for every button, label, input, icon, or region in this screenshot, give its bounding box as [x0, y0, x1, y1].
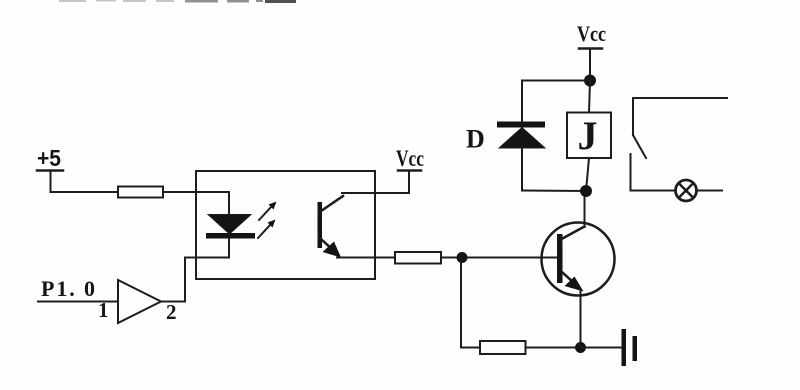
wire diode anode down: [521, 148, 523, 191]
svg-text:2: 2: [166, 300, 177, 324]
junction node emitter: [575, 342, 586, 353]
phototransistor collector lead: [321, 196, 343, 211]
relay coil J box: [567, 113, 611, 159]
svg-text:Vcc: Vcc: [396, 146, 424, 171]
svg-text:+5: +5: [37, 145, 61, 171]
wire P1.0 input: [38, 301, 118, 303]
buffer gate U2 triangle: [118, 280, 161, 323]
wire junction to diode branch: [522, 80, 590, 82]
wire relay contact top rail: [633, 97, 727, 99]
resistor R1: [118, 187, 163, 198]
wire +5 to R1: [51, 191, 119, 193]
relay contact blade: [633, 135, 646, 158]
svg-text:J: J: [578, 113, 598, 158]
phototransistor base bar: [318, 202, 323, 248]
relay contact lower lead: [630, 154, 632, 191]
transistor Q1 collector lead: [562, 227, 585, 240]
wire Vcc down to relay top junction: [589, 49, 591, 81]
wire Vcc drop to collector: [408, 171, 410, 194]
caption text (cropped at top edge): [59, 0, 296, 3]
wire bottom rail left: [461, 347, 480, 349]
light arrow lower: [258, 220, 276, 239]
light arrow upper: [259, 202, 277, 221]
wire R2 to base of Q1: [441, 257, 557, 259]
ground bar left: [622, 329, 627, 366]
ground bar right: [633, 336, 638, 361]
wire vertical down to buffer output: [184, 258, 186, 302]
wire to buffer apex: [161, 301, 185, 303]
wire +5 vertical drop: [50, 171, 52, 193]
lamp cross stroke 2: [679, 183, 693, 197]
wire junction to relay coil: [589, 81, 590, 113]
wire emitter down to bottom rail: [580, 289, 582, 348]
wire relay coil to bottom junction: [586, 158, 589, 191]
wire emitter junction to ground: [581, 347, 622, 349]
svg-text:Vcc: Vcc: [577, 21, 606, 46]
wire emitter to R2: [337, 257, 395, 259]
relay contact upper lead: [632, 98, 634, 135]
resistor R3: [480, 341, 526, 354]
wire collector up to relay node: [584, 191, 586, 227]
transistor Q1 emitter lead: [562, 272, 574, 283]
phototransistor emitter lead: [321, 239, 334, 251]
wire contact to lamp: [631, 190, 676, 192]
lamp circle: [676, 180, 697, 201]
wire diode branch down: [521, 81, 523, 123]
node Vcc (relay) terminal bar: [579, 47, 602, 50]
wire R1 to LED anode: [163, 191, 229, 193]
transistor Q1 emitter arrowhead: [565, 277, 584, 292]
node +5 terminal bar: [37, 169, 63, 172]
transistor Q1 base bar: [557, 234, 563, 283]
wire LED cathode to buffer output: horizontal: [185, 257, 229, 259]
wire diode to relay bottom junction: [522, 190, 586, 193]
transistor Q1 circle: [542, 223, 615, 296]
diode D cathode bar: [497, 122, 545, 128]
LED cathode lead: [228, 239, 230, 258]
node Vcc terminal bar: [398, 169, 421, 172]
wire lamp to right: [697, 190, 723, 192]
junction node base network: [457, 252, 468, 263]
diode D triangle: [499, 128, 545, 149]
junction node relay top: [584, 75, 596, 87]
resistor R2: [395, 252, 441, 264]
svg-text:D: D: [466, 125, 485, 154]
LED anode lead: [228, 192, 230, 216]
optocoupler U1 box: [196, 171, 375, 279]
wire junction down to bottom rail: [460, 258, 462, 348]
lamp cross stroke 1: [679, 183, 693, 197]
LED cathode bar: [206, 233, 255, 239]
junction node relay bottom: [580, 185, 592, 197]
phototransistor emitter arrowhead: [323, 242, 342, 258]
svg-text:1: 1: [98, 298, 109, 322]
wire R3 to emitter junction: [526, 347, 581, 349]
wire collector to Vcc: [342, 192, 409, 194]
svg-text:P1. 0: P1. 0: [41, 276, 95, 301]
LED triangle: [208, 215, 251, 235]
